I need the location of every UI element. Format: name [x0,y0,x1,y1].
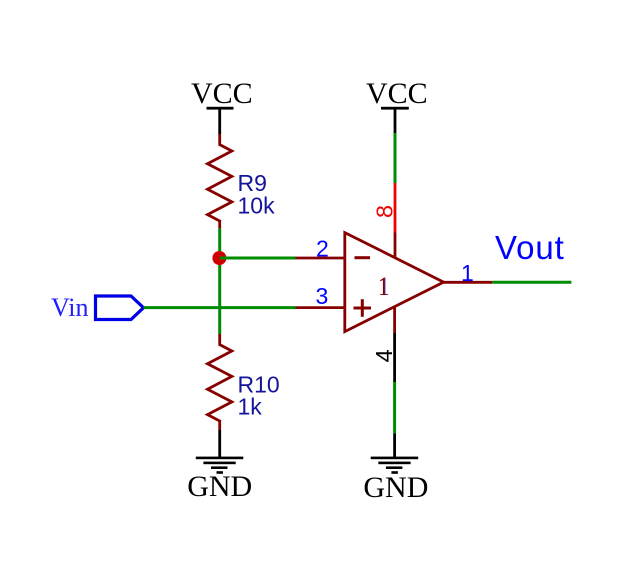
ground symbol (right) [363,433,428,504]
pin 8 inner segment [394,233,397,259]
svg-text:Vin: Vin [51,293,88,322]
svg-text:1k: 1k [238,394,263,420]
port Vin [51,293,144,322]
wire R9 bottom to R10 top (vertical green) [218,229,221,334]
wire VCC to pin 8 [394,133,397,183]
svg-text:8: 8 [372,205,398,218]
power symbol VCC (left) [191,77,253,134]
svg-text:Vout: Vout [495,229,565,266]
pin 3 line [296,306,347,309]
svg-text:GND: GND [187,470,252,503]
op-amp minus symbol [355,256,371,259]
ground symbol (left) [187,430,252,503]
svg-text:VCC: VCC [191,77,253,110]
unit label 1 (blue shadow + dark red) [378,273,390,301]
pin 4 line (black) [393,333,396,382]
svg-text:4: 4 [371,349,397,362]
pin 1 line [444,281,493,284]
svg-text:1: 1 [461,260,474,286]
op-amp U1 triangle [345,233,444,332]
pin 8 line (red) [394,183,397,233]
wire Vin to pin 3 [144,306,296,309]
pin 2 line [296,257,347,260]
wire pin 4 to GND [393,382,396,433]
svg-text:3: 3 [316,283,329,309]
svg-text:GND: GND [363,471,428,504]
svg-text:VCC: VCC [366,77,428,110]
power symbol VCC (right) [366,77,428,133]
svg-text:2: 2 [316,236,329,262]
svg-text:1: 1 [378,273,389,301]
junction node [212,251,226,265]
resistor R9 [208,134,232,229]
wire pin 1 to Vout [492,281,571,284]
resistor R10 [208,334,232,430]
svg-text:10k: 10k [238,193,276,219]
op-amp plus symbol [354,299,372,317]
pin 4 inner segment [393,307,396,334]
wire junction to pin 2 [220,257,296,260]
